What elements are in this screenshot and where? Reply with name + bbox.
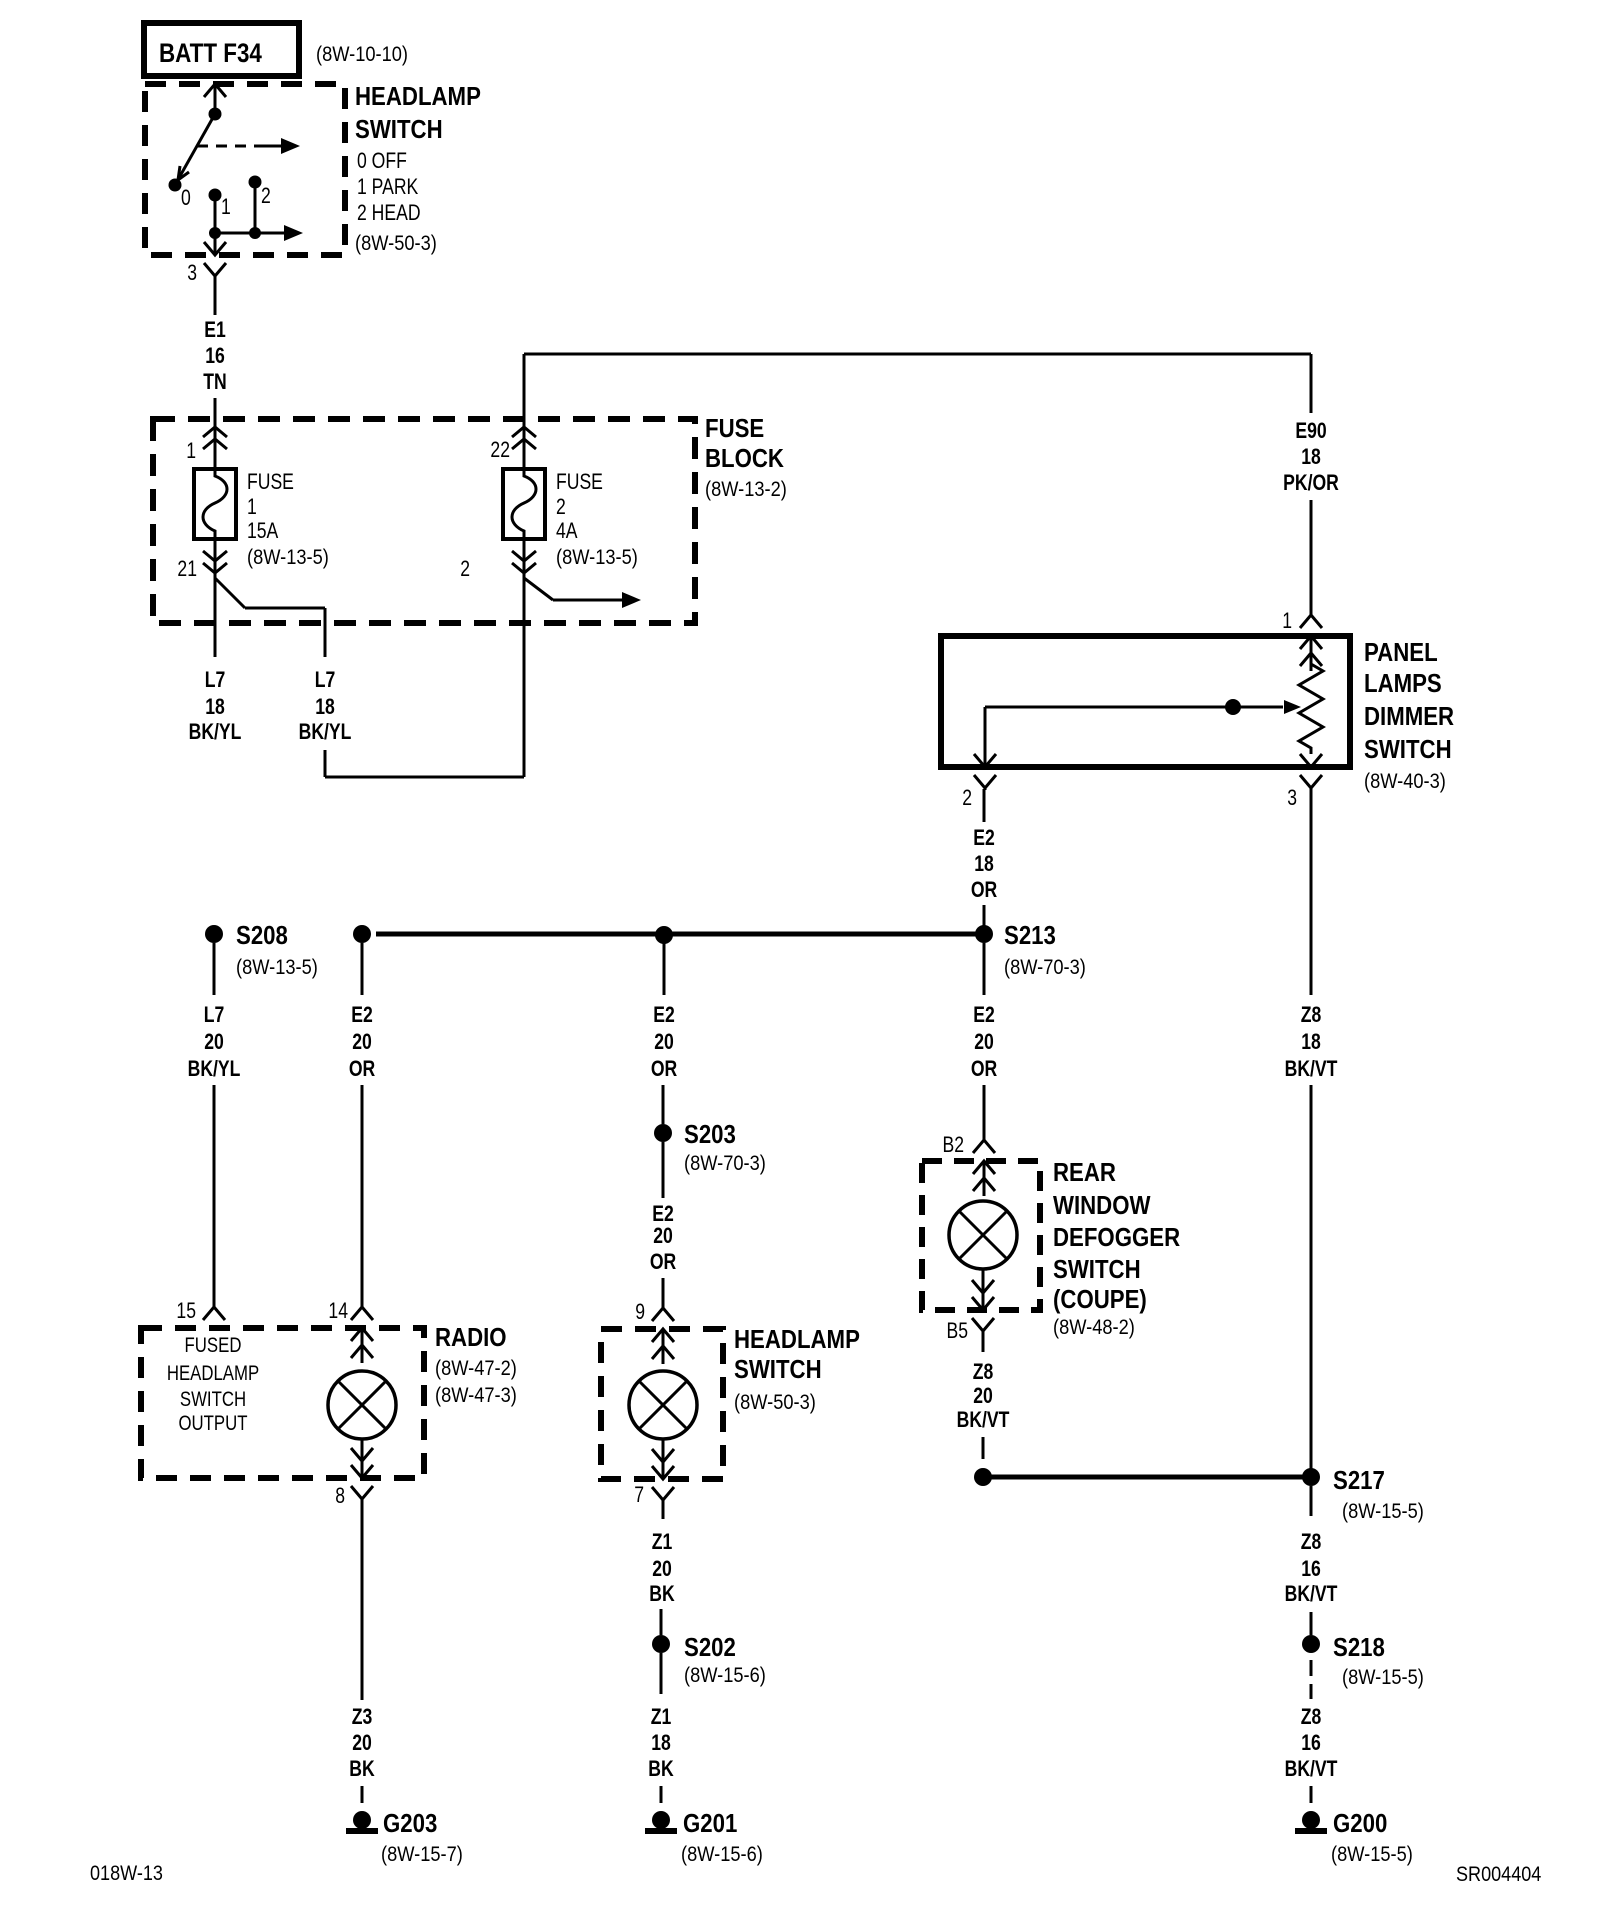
svg-text:PANEL: PANEL: [1364, 638, 1438, 667]
wire Z1 18 BK: [660, 1653, 663, 1694]
svg-text:(8W-15-5): (8W-15-5): [1331, 1843, 1413, 1866]
splice S217: [1302, 1468, 1320, 1486]
rheostat resistor: [1299, 660, 1323, 754]
svg-text:1: 1: [221, 195, 231, 219]
svg-text:REAR: REAR: [1053, 1158, 1116, 1187]
svg-text:(8W-50-3): (8W-50-3): [734, 1391, 816, 1414]
svg-text:RADIO: RADIO: [435, 1323, 507, 1352]
battery feed BATT F34 box: [144, 23, 299, 76]
svg-text:S208: S208: [236, 921, 288, 950]
svg-text:E1: E1: [204, 318, 226, 342]
svg-text:18: 18: [205, 695, 225, 719]
svg-text:(8W-15-6): (8W-15-6): [684, 1664, 766, 1687]
svg-text:BK/VT: BK/VT: [1285, 1582, 1338, 1606]
switch travel dashed arrow: [197, 145, 255, 148]
radio illumination lamp: [328, 1371, 396, 1439]
fuse 2 output arrow: [524, 578, 553, 600]
pin 8 arrow at box bottom: [351, 1465, 373, 1478]
svg-text:FUSE: FUSE: [247, 470, 294, 494]
svg-text:(8W-13-5): (8W-13-5): [236, 956, 318, 979]
svg-text:2: 2: [556, 495, 566, 519]
svg-text:8: 8: [335, 1484, 345, 1508]
wire E2 20 OR (headlamp switch branch): [663, 943, 666, 995]
svg-text:Z8: Z8: [1301, 1003, 1322, 1027]
svg-text:20: 20: [654, 1030, 674, 1054]
contact stems and output wire: [214, 195, 217, 233]
svg-text:FUSED: FUSED: [185, 1334, 242, 1357]
splice S203: [654, 1124, 672, 1142]
svg-text:S213: S213: [1004, 921, 1056, 950]
wire E2 20 OR below S203: [662, 1142, 665, 1198]
svg-text:(8W-47-2): (8W-47-2): [435, 1357, 517, 1380]
svg-text:BK/YL: BK/YL: [188, 1057, 241, 1081]
wire L7 20 BK/YL: [213, 943, 216, 995]
svg-text:18: 18: [1301, 1030, 1321, 1054]
svg-text:7: 7: [634, 1483, 644, 1507]
svg-text:WINDOW: WINDOW: [1053, 1191, 1151, 1220]
svg-text:(8W-10-10): (8W-10-10): [316, 43, 408, 66]
svg-text:(COUPE): (COUPE): [1053, 1285, 1147, 1314]
svg-text:BK/VT: BK/VT: [1285, 1057, 1338, 1081]
svg-text:PK/OR: PK/OR: [1283, 471, 1339, 495]
svg-text:B5: B5: [946, 1319, 968, 1343]
wire Z8 16 BK/VT (lower): [1310, 1660, 1313, 1676]
svg-text:1: 1: [186, 439, 196, 463]
svg-text:(8W-15-6): (8W-15-6): [681, 1843, 763, 1866]
pin B2 arrow inside box: [973, 1161, 995, 1174]
svg-text:S203: S203: [684, 1120, 736, 1149]
svg-text:Z8: Z8: [1301, 1705, 1322, 1729]
svg-text:18: 18: [651, 1731, 671, 1755]
svg-text:SWITCH: SWITCH: [1053, 1255, 1141, 1284]
svg-text:(8W-15-7): (8W-15-7): [381, 1843, 463, 1866]
svg-text:BK: BK: [349, 1757, 375, 1781]
svg-text:OR: OR: [971, 1057, 997, 1081]
splice S208: [205, 925, 223, 943]
wire E1 16 TN: [214, 277, 217, 315]
svg-text:018W-13: 018W-13: [90, 1862, 163, 1886]
svg-text:Z3: Z3: [352, 1705, 373, 1729]
svg-text:(8W-15-5): (8W-15-5): [1342, 1500, 1424, 1523]
svg-text:S217: S217: [1333, 1466, 1385, 1495]
svg-text:E2: E2: [652, 1202, 674, 1226]
svg-text:18: 18: [974, 852, 994, 876]
wire Z3 20 BK: [361, 1500, 364, 1700]
defogger switch illumination lamp: [949, 1201, 1017, 1269]
svg-text:14: 14: [328, 1299, 348, 1323]
fused headlamp switch output dashed box: [141, 1328, 424, 1478]
svg-text:18: 18: [315, 695, 335, 719]
svg-text:3: 3: [187, 261, 197, 285]
svg-text:OR: OR: [651, 1057, 677, 1081]
svg-text:FUSE: FUSE: [556, 470, 603, 494]
bus junction dot left: [353, 925, 371, 943]
svg-text:SWITCH: SWITCH: [355, 115, 443, 144]
contact 0: [169, 179, 182, 192]
fuse block dashed box: [153, 419, 695, 623]
headlamp switch illumination lamp: [629, 1371, 697, 1439]
svg-text:15A: 15A: [247, 519, 279, 543]
svg-text:2: 2: [962, 786, 972, 810]
svg-text:OUTPUT: OUTPUT: [178, 1412, 247, 1435]
svg-text:OR: OR: [349, 1057, 375, 1081]
branch wire lower segment to fuse 2 output: [324, 750, 327, 777]
svg-text:16: 16: [205, 344, 225, 368]
svg-text:Z8: Z8: [1301, 1530, 1322, 1554]
svg-text:SWITCH: SWITCH: [180, 1388, 246, 1411]
svg-text:3: 3: [1287, 786, 1297, 810]
headlamp switch illumination dashed box: [601, 1329, 723, 1479]
svg-text:SR004404: SR004404: [1456, 1863, 1541, 1887]
svg-text:BK/YL: BK/YL: [299, 720, 352, 744]
svg-text:BK/VT: BK/VT: [957, 1408, 1010, 1432]
svg-text:2 HEAD: 2 HEAD: [357, 201, 421, 225]
svg-text:HEADLAMP: HEADLAMP: [355, 82, 481, 111]
svg-text:E2: E2: [973, 1003, 995, 1027]
panel lamps dimmer switch box: [941, 636, 1350, 767]
svg-text:21: 21: [177, 557, 197, 581]
headlamp switch pivot: [209, 108, 222, 121]
svg-text:L7: L7: [315, 668, 336, 692]
headlamp switch dashed box: [145, 84, 345, 255]
svg-text:DIMMER: DIMMER: [1364, 702, 1454, 731]
rear window defogger switch dashed box: [922, 1161, 1040, 1310]
svg-text:S218: S218: [1333, 1633, 1385, 1662]
svg-text:0: 0: [181, 186, 191, 210]
svg-text:(8W-70-3): (8W-70-3): [684, 1152, 766, 1175]
svg-text:BK: BK: [648, 1757, 674, 1781]
svg-text:LAMPS: LAMPS: [1364, 669, 1442, 698]
svg-text:SWITCH: SWITCH: [734, 1355, 822, 1384]
wire Z8 18 BK/VT: [1310, 789, 1313, 995]
svg-text:OR: OR: [650, 1250, 676, 1274]
svg-text:20: 20: [653, 1224, 673, 1248]
svg-text:(8W-40-3): (8W-40-3): [1364, 770, 1446, 793]
svg-text:B2: B2: [942, 1133, 964, 1157]
contact 1: [209, 189, 222, 202]
svg-text:L7: L7: [205, 668, 226, 692]
lamp lower lead with chevron: [361, 1439, 364, 1478]
svg-text:20: 20: [204, 1030, 224, 1054]
svg-text:TN: TN: [203, 370, 226, 394]
svg-text:18: 18: [1301, 445, 1321, 469]
svg-text:22: 22: [490, 438, 510, 462]
svg-text:FUSE: FUSE: [705, 414, 764, 443]
svg-text:OR: OR: [971, 878, 997, 902]
svg-text:G200: G200: [1333, 1809, 1387, 1838]
svg-text:4A: 4A: [556, 519, 578, 543]
svg-text:1: 1: [247, 495, 257, 519]
svg-text:DEFOGGER: DEFOGGER: [1053, 1223, 1180, 1252]
pin 9 arrow inside box: [652, 1329, 674, 1342]
wire Z8 16 BK/VT (upper): [1310, 1486, 1313, 1516]
svg-text:E90: E90: [1295, 419, 1326, 443]
junction dot to S217 bus: [974, 1468, 992, 1486]
wire from fuse 2 pin 2 down: [523, 539, 526, 777]
svg-text:(8W-15-5): (8W-15-5): [1342, 1666, 1424, 1689]
wire E2 20 OR (radio branch): [361, 943, 364, 995]
svg-text:(8W-48-2): (8W-48-2): [1053, 1316, 1135, 1339]
pin 3 arrow at box bottom: [1300, 754, 1322, 767]
svg-text:BK/YL: BK/YL: [189, 720, 242, 744]
headlamp switch feed arrow to BATT F34: [204, 84, 226, 97]
lamp lower lead with chevron: [662, 1439, 665, 1479]
pin 3 arrow at box bottom: [214, 233, 217, 255]
bus junction dot middle: [655, 926, 673, 944]
pin 7 arrow at box bottom: [652, 1466, 674, 1479]
wire Z8 20 BK/VT: [982, 1332, 985, 1352]
svg-text:(8W-50-3): (8W-50-3): [355, 232, 437, 255]
svg-text:(8W-13-5): (8W-13-5): [247, 546, 329, 569]
wiper arrow with junction dot: [985, 706, 1283, 709]
svg-text:20: 20: [974, 1030, 994, 1054]
ground G201: [652, 1811, 670, 1829]
ground G200: [1302, 1811, 1320, 1829]
lamp lower lead with chevron: [982, 1269, 985, 1310]
branch wire to L7 splice: [215, 578, 245, 608]
bus wire from junction to splice S213: [376, 932, 984, 937]
svg-text:2: 2: [460, 557, 470, 581]
feed wire from pin 22 up and across to E90: [523, 354, 526, 419]
svg-text:(8W-47-3): (8W-47-3): [435, 1384, 517, 1407]
bus wire to splice S217: [983, 1475, 1311, 1480]
fuse F2: [503, 469, 545, 539]
splice S202: [652, 1635, 670, 1653]
svg-text:(8W-70-3): (8W-70-3): [1004, 956, 1086, 979]
contact 2: [249, 176, 262, 189]
svg-text:1: 1: [1282, 609, 1292, 633]
wire E2 18 OR: [983, 789, 986, 822]
svg-text:BK: BK: [649, 1582, 675, 1606]
svg-text:SWITCH: SWITCH: [1364, 735, 1452, 764]
svg-text:16: 16: [1301, 1731, 1321, 1755]
svg-text:Z1: Z1: [651, 1705, 672, 1729]
svg-text:BLOCK: BLOCK: [705, 444, 784, 473]
svg-text:9: 9: [635, 1300, 645, 1324]
headlamp switch blade: [175, 114, 215, 185]
wire from pin 21 down: [214, 539, 217, 657]
svg-text:15: 15: [176, 1299, 196, 1323]
svg-text:0 OFF: 0 OFF: [357, 149, 407, 173]
svg-text:HEADLAMP: HEADLAMP: [167, 1362, 259, 1385]
svg-text:(8W-13-5): (8W-13-5): [556, 546, 638, 569]
svg-text:BK/VT: BK/VT: [1285, 1757, 1338, 1781]
wire Z1 20 BK: [662, 1501, 665, 1519]
svg-text:Z8: Z8: [973, 1360, 994, 1384]
svg-text:1 PARK: 1 PARK: [357, 175, 419, 199]
svg-text:Z1: Z1: [652, 1530, 673, 1554]
svg-text:20: 20: [352, 1731, 372, 1755]
svg-text:2: 2: [261, 184, 271, 208]
svg-text:16: 16: [1301, 1557, 1321, 1581]
svg-text:L7: L7: [204, 1003, 225, 1027]
svg-text:E2: E2: [351, 1003, 373, 1027]
svg-text:(8W-13-2): (8W-13-2): [705, 478, 787, 501]
svg-text:HEADLAMP: HEADLAMP: [734, 1325, 860, 1354]
ground G203: [353, 1811, 371, 1829]
splice S218: [1302, 1635, 1320, 1653]
pin 2 arrow at box bottom: [974, 754, 996, 767]
svg-text:G203: G203: [383, 1809, 437, 1838]
fuse F1: [194, 469, 236, 539]
svg-text:E2: E2: [973, 826, 995, 850]
svg-text:20: 20: [352, 1030, 372, 1054]
svg-text:BATT F34: BATT F34: [159, 39, 262, 68]
svg-text:G201: G201: [683, 1809, 737, 1838]
svg-text:20: 20: [652, 1557, 672, 1581]
splice S213: [975, 925, 993, 943]
pin B5 arrow at box bottom: [972, 1297, 994, 1310]
svg-text:E2: E2: [653, 1003, 675, 1027]
svg-text:S202: S202: [684, 1633, 736, 1662]
wire E2 20 OR (defogger branch): [983, 943, 986, 995]
svg-text:20: 20: [973, 1384, 993, 1408]
